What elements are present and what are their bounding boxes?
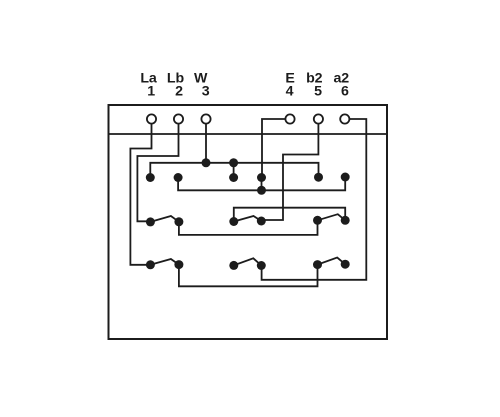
svg-text:1: 1 bbox=[147, 83, 155, 99]
wire: middle-right contact up and left to middle-center contact bbox=[234, 208, 345, 222]
terminal 3 bbox=[201, 114, 210, 123]
wire: terminal 3 W down to row A junction bbox=[205, 124, 207, 163]
contact middle-center 2 bbox=[257, 217, 266, 226]
terminal 2 bbox=[174, 114, 183, 123]
contact middle-left 2 bbox=[174, 217, 183, 226]
switch blade middle-left bbox=[150, 216, 179, 222]
contact middle-left 1 bbox=[146, 217, 155, 226]
terminal 4 bbox=[285, 114, 294, 123]
wire: terminal 4 E left and down to row B dot bbox=[262, 119, 285, 178]
terminal box outline bbox=[109, 105, 388, 339]
wire: terminal 2 Lb to middle-left switch contact bbox=[137, 124, 178, 222]
contact middle-center 1 bbox=[229, 217, 238, 226]
terminal 6 bbox=[340, 114, 349, 123]
svg-text:2: 2 bbox=[175, 83, 183, 99]
node B2 bbox=[174, 173, 183, 182]
svg-text:3: 3 bbox=[202, 83, 210, 99]
contact middle-right 1 bbox=[313, 216, 322, 225]
node B4 E dot bbox=[257, 173, 266, 182]
node A2 row A dot bbox=[229, 158, 238, 167]
wire: stub row A to row B at x=233.6 bbox=[233, 163, 235, 178]
contact middle-right 2 bbox=[341, 216, 350, 225]
terminal 5 bbox=[314, 114, 323, 123]
wire: terminal 1 La to lower-left switch contact bbox=[130, 124, 151, 265]
svg-text:6: 6 bbox=[341, 83, 349, 99]
svg-text:4: 4 bbox=[286, 83, 294, 99]
wire: lower-left dot2 down-right-up to lower-right dot1 bbox=[179, 265, 318, 287]
node B3 bbox=[229, 173, 238, 182]
wire: row C bus bbox=[178, 177, 345, 190]
contact lower-right 2 bbox=[341, 260, 350, 269]
node B6 bbox=[341, 173, 350, 182]
wire: terminal 6 a2 right-down-left to lower-center contact bbox=[262, 119, 367, 280]
wire: terminal 5 b2 down-left-down to middle-center contact bbox=[261, 124, 318, 220]
contact lower-right 1 bbox=[313, 260, 322, 269]
terminal 1 bbox=[147, 114, 156, 123]
switch blade middle-center bbox=[234, 216, 261, 222]
switch blade lower-center bbox=[234, 258, 261, 265]
wire: row A bus bbox=[150, 163, 318, 178]
contact lower-center 1 bbox=[229, 261, 238, 270]
wire: middle-left dot2 down-right-up to middle-right dot1 bbox=[179, 220, 318, 235]
node B1 bbox=[146, 173, 155, 182]
node A1 row A dot under W bbox=[202, 158, 211, 167]
svg-text:5: 5 bbox=[314, 83, 322, 99]
contact lower-left 1 bbox=[146, 260, 155, 269]
wire: stub E dot to row C bbox=[261, 178, 263, 191]
switch blade lower-right bbox=[318, 258, 346, 265]
contact lower-left 2 bbox=[174, 260, 183, 269]
node C1 row C junction bbox=[257, 186, 266, 195]
contact lower-center 2 bbox=[257, 261, 266, 270]
switch blade middle-right bbox=[318, 214, 346, 220]
switch blade lower-left bbox=[150, 259, 179, 265]
node B5 bbox=[314, 173, 323, 182]
terminal strip divider bbox=[109, 133, 388, 135]
